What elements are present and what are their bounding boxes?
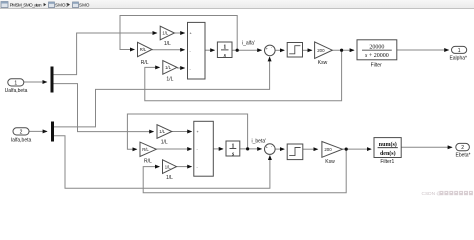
svg-text:20000: 20000 bbox=[369, 45, 384, 51]
svg-text:1/L: 1/L bbox=[162, 31, 168, 36]
svg-text:1/L: 1/L bbox=[165, 164, 171, 169]
svg-text:num(s): num(s) bbox=[379, 141, 397, 148]
svg-text:1/L: 1/L bbox=[159, 129, 165, 134]
svg-text:1: 1 bbox=[223, 45, 226, 51]
svg-text:i_alfa': i_alfa' bbox=[242, 40, 255, 46]
svg-text:s + 20000: s + 20000 bbox=[365, 53, 389, 59]
svg-text:1: 1 bbox=[232, 143, 235, 149]
svg-text:den(s): den(s) bbox=[380, 150, 396, 157]
svg-text:R/L: R/L bbox=[140, 47, 147, 52]
svg-text:Ebeta*: Ebeta* bbox=[455, 152, 470, 158]
svg-text:Filter: Filter bbox=[371, 62, 382, 68]
svg-text:1: 1 bbox=[458, 48, 461, 54]
svg-text:2: 2 bbox=[461, 145, 464, 151]
svg-text:200: 200 bbox=[324, 147, 332, 152]
svg-text:SMO3: SMO3 bbox=[55, 3, 68, 8]
svg-text:1/L: 1/L bbox=[164, 41, 171, 47]
svg-text:Filter1: Filter1 bbox=[380, 159, 394, 165]
svg-text:CSDN @: CSDN @ bbox=[422, 191, 442, 197]
svg-text:PMSM_SMO_atan: PMSM_SMO_atan bbox=[10, 3, 42, 8]
svg-text:1/L: 1/L bbox=[166, 77, 173, 83]
svg-text:1/L: 1/L bbox=[165, 65, 171, 70]
svg-text:i_beta': i_beta' bbox=[252, 138, 267, 144]
svg-text:1/L: 1/L bbox=[166, 175, 173, 181]
svg-text:1/L: 1/L bbox=[161, 139, 168, 145]
svg-text:R/L: R/L bbox=[142, 147, 149, 152]
svg-text:Ealpha*: Ealpha* bbox=[449, 56, 467, 62]
svg-text:2: 2 bbox=[20, 130, 23, 136]
svg-text:200: 200 bbox=[317, 48, 325, 53]
svg-text:R/L: R/L bbox=[141, 60, 149, 66]
svg-text:R/L: R/L bbox=[144, 158, 152, 164]
svg-text:Ialfa,beta: Ialfa,beta bbox=[11, 138, 32, 144]
svg-text:Ksw: Ksw bbox=[318, 60, 328, 66]
svg-text:1: 1 bbox=[14, 80, 17, 86]
svg-text:SMO: SMO bbox=[79, 3, 90, 8]
svg-text:Ualfa,beta: Ualfa,beta bbox=[5, 88, 28, 94]
svg-text:Ksw: Ksw bbox=[325, 159, 335, 165]
